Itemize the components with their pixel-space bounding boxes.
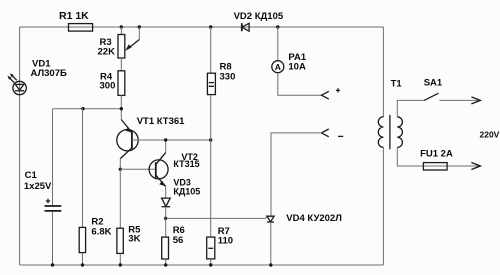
- node 220V mains label: [480, 130, 500, 140]
- wire R5 lower lead: [119, 253, 121, 265]
- wire R3 top lead: [120, 27, 122, 35]
- resistor R2: [79, 217, 111, 253]
- svg-text:22K: 22K: [98, 47, 116, 58]
- wire left rail: [19, 27, 21, 265]
- wire R6 upper lead: [165, 218, 167, 237]
- svg-text:АЛ307Б: АЛ307Б: [31, 68, 67, 79]
- node junction top rail R3: [120, 25, 123, 28]
- wire minus terminal to VD4 anode: [271, 133, 322, 216]
- svg-text:T1: T1: [391, 78, 403, 89]
- node junction top rail R3 wiper: [138, 25, 141, 28]
- resistor R7: [207, 226, 233, 259]
- node plus output terminal: [322, 88, 341, 99]
- svg-text:3K: 3K: [128, 234, 140, 245]
- svg-text:VD4 КУ202Л: VD4 КУ202Л: [286, 213, 342, 224]
- transformer T1: [378, 78, 402, 149]
- wire top rail: [20, 26, 384, 28]
- wire C1 lower lead: [52, 212, 54, 266]
- node junction top rail R8: [209, 25, 212, 28]
- node junction VT1 collector / VT2 base / R5: [119, 168, 122, 171]
- resistor R6: [162, 225, 185, 259]
- wire VT2 collector lead: [165, 140, 167, 153]
- resistor R5: [117, 224, 141, 253]
- svg-text:1x25V: 1x25V: [24, 181, 52, 192]
- node junction bottom rail R7: [209, 263, 212, 266]
- diode VD2: [234, 11, 284, 31]
- wire mid horizontal (C1/R2 rail): [53, 108, 122, 110]
- wire T1 secondary bottom lead: [397, 147, 480, 166]
- transistor VT1: [117, 116, 185, 159]
- wire R8 upper lead: [210, 27, 212, 73]
- svg-text:FU1 2A: FU1 2A: [420, 149, 453, 160]
- node junction bottom rail VD4: [269, 263, 272, 266]
- wire R5 upper lead: [119, 169, 121, 228]
- capacitor C1: [24, 170, 61, 211]
- node junction VT2 collector on base rail: [164, 138, 167, 141]
- wire VT2 emitter lead: [165, 186, 167, 198]
- svg-text:110: 110: [218, 236, 233, 247]
- svg-text:C1: C1: [25, 170, 38, 181]
- wire C1 upper lead: [52, 109, 54, 206]
- wire bottom rail: [20, 264, 384, 266]
- resistor R1: [59, 10, 93, 31]
- diode VD3: [162, 177, 201, 206]
- node junction bottom rail R5: [119, 263, 122, 266]
- svg-text:300: 300: [100, 80, 116, 91]
- node junction R8/R7 on base rail: [209, 138, 212, 141]
- svg-text:КТ315: КТ315: [173, 159, 199, 169]
- svg-text:330: 330: [220, 71, 236, 82]
- svg-text:56: 56: [173, 235, 184, 246]
- wire VD4 cathode to bottom rail: [270, 222, 272, 265]
- node minus output terminal: [322, 129, 344, 137]
- transistor VT2: [149, 152, 200, 186]
- wire T1 secondary top lead: [397, 100, 424, 116]
- wire VT1 collector lead: [119, 159, 121, 170]
- node junction bottom rail R2: [81, 263, 84, 266]
- wire R8 lower lead: [210, 95, 212, 140]
- wire PA1 to plus terminal: [278, 73, 322, 96]
- ammeter PA1: [272, 52, 307, 73]
- svg-text:A: A: [275, 62, 281, 72]
- svg-text:6.8K: 6.8K: [91, 227, 111, 238]
- wire gate rail to VD4: [166, 216, 268, 218]
- resistor R3 (variable, 22K): [98, 27, 140, 58]
- svg-text:VT1 КТ361: VT1 КТ361: [137, 116, 185, 127]
- wire base rail y140 (VT1 base to R8/R7): [132, 139, 211, 141]
- wire R7 lower lead: [210, 259, 212, 265]
- svg-text:КД105: КД105: [173, 186, 200, 196]
- svg-text:10A: 10A: [288, 62, 306, 73]
- wire arrow (mains line 2): [471, 163, 480, 170]
- wire R4 to VT1 emitter: [120, 95, 122, 119]
- node junction bottom rail C1: [51, 263, 54, 266]
- wire PA1 top lead: [277, 27, 279, 61]
- resistor R8: [207, 61, 235, 94]
- svg-text:220V: 220V: [480, 130, 500, 140]
- node junction mid rail R4/VT1: [120, 107, 123, 110]
- wire right rail upper (to T1 primary): [382, 27, 384, 117]
- wire VT2 base lead: [120, 168, 156, 170]
- node junction bottom rail R6: [164, 263, 167, 266]
- resistor R4: [100, 71, 125, 96]
- wire R7 upper lead: [210, 140, 212, 237]
- thyristor VD4: [267, 213, 342, 224]
- wire R2 upper lead: [82, 109, 84, 228]
- svg-text:R1 1K: R1 1K: [59, 10, 89, 22]
- wire R3 to R4: [120, 58, 122, 71]
- wire switch to arrow (mains line 1): [440, 97, 481, 104]
- node junction VD3/R6/gate: [164, 217, 167, 220]
- wire R2 lower lead: [82, 253, 84, 265]
- node junction mid rail R2: [81, 107, 84, 110]
- LED VD1: [7, 59, 67, 95]
- node junction top rail PA1: [276, 25, 279, 28]
- switch SA1: [424, 78, 443, 101]
- fuse FU1: [420, 149, 453, 170]
- svg-text:SA1: SA1: [424, 78, 443, 89]
- wire VD3 to gate node: [165, 207, 167, 219]
- wire right rail lower (from T1 primary): [382, 147, 384, 265]
- svg-text:VD2 КД105: VD2 КД105: [234, 11, 284, 22]
- wire R6 lower lead: [165, 259, 167, 265]
